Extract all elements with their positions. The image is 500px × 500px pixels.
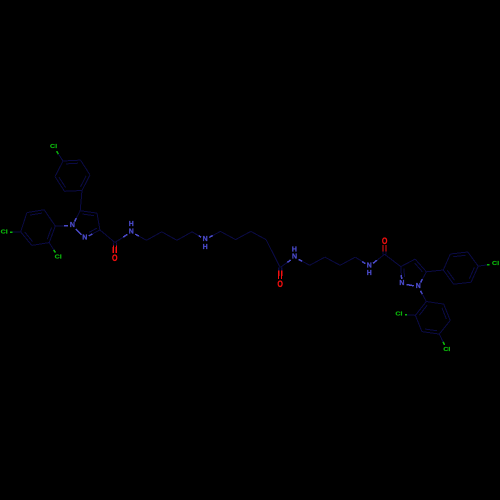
bond C4-C5 [80,211,97,213]
bond c13-Nm2 [355,257,362,262]
bond Cb-Nm [280,262,287,267]
bond Cd-C3r [385,254,401,266]
bond T4-Cl_t [58,154,63,161]
bond c6-c7 [236,231,251,239]
bond Nc-c5 [209,236,213,238]
bond N1r-N2r [406,285,413,286]
bond C5r-N1r [422,272,426,279]
bond E3-E4 [422,332,439,335]
svg-text:O: O [382,235,388,246]
svg-text:N: N [416,283,421,290]
bond D3-D4 [21,232,32,246]
svg-text:Cl: Cl [1,229,8,235]
bond Cb-O2 [278,268,280,271]
svg-text:N: N [129,228,134,235]
bond F4-F5 [468,252,478,266]
bond D4-D5 [21,213,27,232]
bond F2-F3 [454,282,472,284]
bond Nam-c1 [135,234,139,236]
bond T1-C5 [80,191,82,211]
bond E4-Cl_e4 [439,334,443,342]
bond D5-D6 [27,210,44,213]
svg-text:Cl: Cl [55,254,62,260]
svg-text:H: H [292,246,297,253]
svg-text:O: O [112,252,118,263]
bond F1-F2 [443,270,453,284]
bond E4-E5 [439,320,450,334]
bond D1-D2 [49,226,55,243]
bond C3-C4 [97,213,100,230]
bond N1-D1 [64,225,68,227]
svg-text:H: H [367,270,372,277]
bond E6-E1 [426,302,443,305]
svg-text:N: N [399,280,404,287]
bond T6-T1 [65,190,83,193]
bond c2-c3 [162,232,177,241]
bond T4-T5 [55,161,63,177]
bond E1-E2 [415,302,426,316]
bond D2-D3 [32,243,49,246]
bond c10-c11 [310,257,325,265]
bond c3-c4 [177,232,192,241]
bond Ca-O1 [112,243,114,246]
svg-text:Cl: Cl [395,311,402,317]
bond D4-Cl_d4 [12,231,20,233]
bond E2-E3 [415,315,422,331]
bond F6-F1 [443,254,450,270]
bond c4-Nc [192,232,199,236]
svg-text:Cl: Cl [443,346,450,352]
svg-text:Cl: Cl [50,144,57,150]
svg-text:N: N [203,236,208,243]
bond N1r-E1 [421,291,423,294]
svg-text:N: N [82,235,87,242]
svg-text:Cl: Cl [492,260,499,266]
bond c11-c12 [325,257,340,265]
bond T3-T4 [63,159,81,162]
bond Nm-c10 [299,259,303,261]
bond c1-c2 [147,232,162,241]
svg-text:H: H [203,244,208,251]
bond E5-E6 [444,304,451,320]
bond c7-c8 [251,231,266,239]
bond Ca-Nam [115,237,123,242]
bond C5-N1 [76,211,80,219]
bond Cd-O3 [385,251,387,254]
bond Nm2-Cd [373,260,377,263]
bond F4-Cl_f [478,265,487,266]
bond F3-F4 [471,266,478,282]
bond c12-c13 [340,257,355,265]
bond c5-c6 [220,231,235,239]
bond E2-Cl_e2 [407,314,415,317]
svg-text:N: N [70,222,75,229]
svg-text:H: H [129,221,134,228]
svg-text:O: O [277,278,283,289]
bond T2-T3 [81,160,91,175]
bond F5-F6 [450,252,468,254]
bond C5r-F1 [426,270,443,272]
bond T5-T6 [55,177,65,192]
bond c9-Cb [273,254,280,268]
bond C4r-C5r [415,259,426,272]
bond T1-T2 [82,175,90,191]
svg-text:N: N [292,254,297,261]
bond C3-Ca [100,230,115,243]
bond N2-C3 [89,234,93,236]
bond C3r-C4r [401,259,415,267]
bond D6-D1 [44,210,55,226]
bond c8-c9 [266,240,273,254]
bond N1-N2 [76,229,82,235]
svg-text:N: N [367,263,372,270]
bond N2r-C3r [400,275,402,279]
bond D2-Cl_d2 [49,243,54,250]
